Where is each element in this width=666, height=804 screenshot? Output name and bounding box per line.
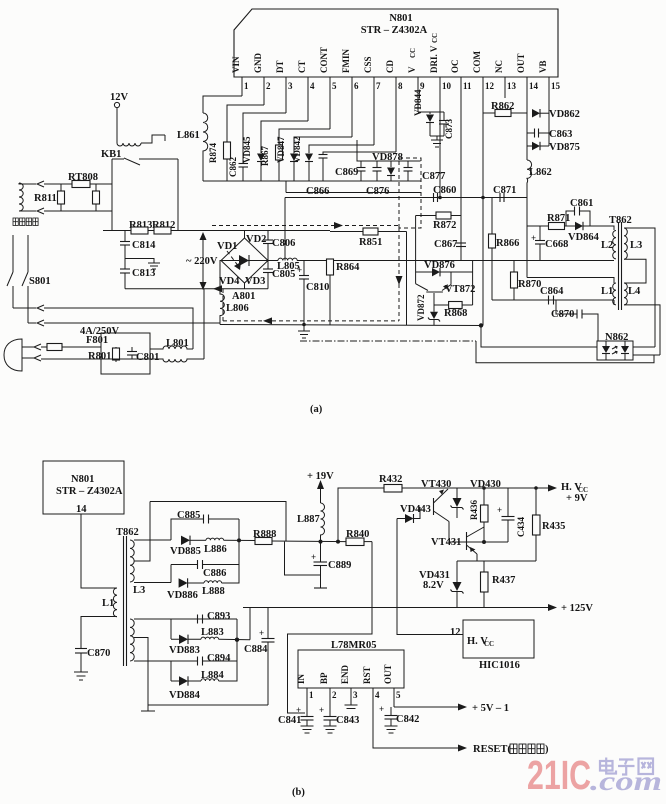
- svg-text:VD842: VD842: [292, 136, 302, 163]
- svg-text:C860: C860: [433, 185, 456, 196]
- svg-text:C801: C801: [136, 352, 159, 363]
- C889 side loop: [285, 542, 321, 575]
- ground (C870): [74, 672, 88, 680]
- snubber to L2 line: [527, 225, 549, 227]
- pin labels L78MR05: [296, 664, 401, 700]
- svg-text:END: END: [340, 664, 350, 684]
- svg-text:10: 10: [442, 81, 452, 91]
- svg-text:VD872: VD872: [416, 294, 426, 321]
- svg-text:5: 5: [396, 690, 401, 700]
- relay KB1 coil: [117, 143, 141, 146]
- svg-text:HIC1016: HIC1016: [479, 660, 520, 671]
- svg-text:+: +: [379, 704, 384, 714]
- ground (C814 branch): [125, 259, 154, 264]
- svg-text:L862: L862: [529, 167, 552, 178]
- svg-text:C886: C886: [203, 568, 226, 579]
- 网: [639, 759, 654, 775]
- svg-text:2: 2: [332, 690, 337, 700]
- svg-text:6: 6: [354, 81, 359, 91]
- svg-text:R432: R432: [379, 474, 402, 485]
- svg-text:14: 14: [529, 81, 539, 91]
- svg-text:KB1: KB1: [101, 149, 121, 160]
- dashed feedback top line: [212, 225, 399, 227]
- svg-text:RST: RST: [362, 666, 372, 684]
- svg-text:C876: C876: [366, 186, 389, 197]
- connector arrows AC lines: [13, 305, 44, 311]
- wire N862 inputs: [481, 326, 597, 348]
- winding (b lower): [130, 619, 134, 661]
- wire L862 down to L1 tap: [527, 196, 614, 283]
- svg-text:VD845: VD845: [242, 136, 252, 163]
- svg-text:DT: DT: [275, 60, 285, 73]
- svg-text:R868: R868: [444, 308, 467, 319]
- svg-text:R436: R436: [469, 500, 479, 520]
- wire AC to choke upper: [44, 308, 193, 349]
- svg-text:V: V: [407, 66, 417, 73]
- svg-text:R870: R870: [518, 279, 541, 290]
- svg-text:L1: L1: [601, 286, 613, 297]
- svg-text:T862: T862: [609, 215, 632, 226]
- svg-text:S801: S801: [29, 276, 51, 287]
- svg-text:12: 12: [485, 81, 495, 91]
- svg-text:L887: L887: [297, 514, 320, 525]
- svg-text:C893: C893: [207, 611, 230, 622]
- wire 12V to relay coil: [116, 108, 118, 143]
- svg-text:(b): (b): [292, 787, 305, 798]
- pin numbers 1-15: [244, 81, 561, 91]
- svg-text:VD4: VD4: [219, 276, 240, 287]
- svg-text:R867: R867: [260, 146, 270, 166]
- svg-text:L3: L3: [133, 585, 145, 596]
- pin leads 1-15 of N801: [242, 77, 549, 326]
- svg-text:C864: C864: [540, 286, 564, 297]
- wire pin4 bracket: [261, 121, 308, 153]
- svg-text:C866: C866: [306, 186, 329, 197]
- svg-text:C871: C871: [493, 185, 516, 196]
- svg-text:STR – Z4302A: STR – Z4302A: [56, 486, 123, 497]
- svg-text:3: 3: [353, 690, 358, 700]
- OUT +5V line: [394, 688, 458, 707]
- hybrid IC HIC1016: [463, 620, 534, 658]
- svg-text:OUT: OUT: [516, 53, 526, 73]
- 子: [619, 760, 634, 765]
- primary return line: [220, 325, 483, 326]
- svg-text:4: 4: [310, 81, 315, 91]
- svg-text:R864: R864: [336, 262, 360, 273]
- dashed box around VD878: [399, 158, 421, 228]
- dashed feedback left edge with arrow: [398, 228, 400, 321]
- snubber line bus3: [285, 197, 527, 199]
- wire R840 to regulator: [288, 542, 373, 713]
- svg-text:(a): (a): [310, 404, 323, 415]
- svg-text:8: 8: [398, 81, 403, 91]
- wire KB1 right leg: [177, 159, 179, 231]
- svg-text:+ 125V: + 125V: [561, 603, 593, 614]
- wire VD443 to HIC1016 pin 12: [397, 519, 463, 635]
- svg-text:15: 15: [551, 81, 561, 91]
- wire pin14 to L1: [81, 514, 117, 588]
- wire VD876 left leg: [415, 216, 417, 284]
- +125V rail: [243, 607, 548, 609]
- wire VT872 right leg: [472, 261, 474, 306]
- wire AC to bridge lower: [44, 322, 220, 324]
- wire pin3 bracket: [243, 113, 286, 163]
- svg-text:5: 5: [332, 81, 337, 91]
- wire degauss top: [44, 183, 112, 185]
- svg-text:DRI. V: DRI. V: [429, 45, 439, 73]
- svg-text:C814: C814: [132, 240, 156, 251]
- svg-text:13: 13: [507, 81, 517, 91]
- pin name labels (rotated): [231, 33, 548, 73]
- svg-text:R811: R811: [34, 193, 57, 204]
- svg-text:+: +: [531, 233, 536, 243]
- wire upper winding taps: [134, 502, 286, 583]
- wire pin6 bracket: [294, 137, 352, 153]
- svg-text:R874: R874: [208, 143, 218, 163]
- IC N801 box (b): [43, 461, 124, 514]
- RST output: [373, 688, 458, 748]
- svg-text:VD883: VD883: [169, 645, 200, 656]
- svg-text:C841: C841: [278, 715, 301, 726]
- svg-text:9: 9: [420, 81, 425, 91]
- svg-text:21IC: 21IC: [527, 752, 591, 798]
- wire pin1 to L861: [203, 96, 242, 113]
- svg-text:1: 1: [244, 81, 249, 91]
- svg-text:VD886: VD886: [167, 590, 198, 601]
- svg-text:C668: C668: [545, 239, 568, 250]
- svg-text:C863: C863: [549, 129, 572, 140]
- svg-text:R437: R437: [492, 575, 515, 586]
- svg-text:VD443: VD443: [400, 504, 431, 515]
- connector arrows to degauss coil: [19, 181, 44, 187]
- svg-text:N801: N801: [389, 13, 412, 24]
- svg-text:VD3: VD3: [245, 276, 265, 287]
- svg-text:.com: .com: [590, 766, 662, 796]
- ground (END pin): [345, 688, 358, 709]
- svg-text:+: +: [311, 552, 316, 562]
- svg-text:CC: CC: [409, 48, 417, 58]
- bus second line: [286, 181, 421, 193]
- svg-text:L1: L1: [102, 598, 114, 609]
- wire bridge top to AC1: [244, 231, 246, 239]
- svg-text:C870: C870: [87, 648, 110, 659]
- svg-text:RESET(: RESET(: [473, 744, 511, 755]
- svg-text:2: 2: [266, 81, 271, 91]
- mains plug: [4, 339, 22, 371]
- dashed feedback bottom line: [223, 289, 399, 321]
- svg-text:CC: CC: [484, 640, 494, 648]
- svg-text:GND: GND: [253, 53, 263, 74]
- relay KB1 contact: [112, 158, 124, 160]
- svg-text:~ 220V: ~ 220V: [186, 256, 218, 267]
- svg-text:A801: A801: [232, 291, 255, 302]
- svg-text:L886: L886: [204, 544, 227, 555]
- svg-text:C861: C861: [570, 198, 593, 209]
- svg-text:CONT: CONT: [319, 47, 329, 73]
- H.Vcc +9V output: [548, 485, 557, 492]
- svg-text:VD864: VD864: [568, 232, 600, 243]
- svg-text:VD875: VD875: [549, 142, 580, 153]
- svg-text:CSS: CSS: [363, 56, 373, 73]
- svg-text:VD878: VD878: [372, 152, 403, 163]
- svg-text:+: +: [497, 505, 502, 515]
- wire L3 taps: [624, 228, 655, 347]
- svg-text:VT430: VT430: [421, 479, 451, 490]
- svg-text:VD847: VD847: [276, 136, 286, 163]
- svg-text:L78MR05: L78MR05: [331, 640, 377, 651]
- svg-text:VD885: VD885: [170, 546, 201, 557]
- svg-text:12V: 12V: [110, 92, 129, 103]
- svg-text:R435: R435: [542, 521, 565, 532]
- svg-text:L861: L861: [177, 130, 200, 141]
- svg-text:VD862: VD862: [549, 109, 580, 120]
- svg-text:NC: NC: [494, 60, 504, 73]
- svg-text:N801: N801: [71, 474, 94, 485]
- svg-text:IN: IN: [296, 673, 306, 684]
- svg-text:3: 3: [288, 81, 293, 91]
- svg-text:CD: CD: [385, 60, 395, 73]
- capacitor (C876): [376, 161, 378, 168]
- svg-text:11: 11: [463, 81, 472, 91]
- svg-text:C869: C869: [335, 167, 358, 178]
- svg-text:F801: F801: [86, 335, 108, 346]
- svg-text:R866: R866: [496, 238, 519, 249]
- svg-text:R872: R872: [433, 220, 456, 231]
- wire R851 down leg: [406, 232, 408, 326]
- ground bus C866: [203, 180, 421, 182]
- svg-text:C806: C806: [272, 238, 295, 249]
- svg-text:OUT: OUT: [383, 664, 393, 684]
- svg-text:L883: L883: [201, 627, 224, 638]
- main +B rail: [268, 260, 278, 262]
- svg-text:VT431: VT431: [431, 537, 461, 548]
- wire pin7 bracket: [309, 145, 374, 153]
- wire lower winding taps: [134, 619, 237, 705]
- svg-text:VD844: VD844: [413, 89, 423, 116]
- wire degauss bottom: [44, 210, 112, 212]
- svg-text:C843: C843: [336, 715, 359, 726]
- svg-text:C813: C813: [132, 268, 155, 279]
- secondary lower line: [492, 299, 614, 301]
- svg-text:VB: VB: [538, 60, 548, 73]
- svg-text:+ 9V: + 9V: [566, 493, 588, 504]
- svg-text:7: 7: [376, 81, 381, 91]
- svg-text:T862: T862: [116, 527, 139, 538]
- svg-text:BP: BP: [319, 672, 329, 684]
- svg-text:R851: R851: [359, 237, 382, 248]
- svg-text:COM: COM: [472, 51, 482, 74]
- svg-text:C434: C434: [516, 517, 526, 537]
- svg-text:L2: L2: [601, 240, 613, 251]
- resistor (second vertical): [93, 191, 100, 204]
- capacitor (CSS): [319, 154, 328, 156]
- wire AC line upper (R813/R812 line): [103, 230, 330, 232]
- svg-text:C894: C894: [207, 653, 231, 664]
- ground (primary): [298, 325, 310, 339]
- svg-text:+: +: [296, 705, 301, 715]
- svg-text:L3: L3: [630, 240, 642, 251]
- wire AC line lower: [125, 288, 268, 290]
- EMI filter box: [101, 333, 150, 374]
- svg-text:L806: L806: [226, 303, 249, 314]
- svg-text:C842: C842: [396, 714, 419, 725]
- ground return line: [148, 704, 268, 706]
- wire pin8 bracket: [323, 152, 396, 155]
- wire pin2 bracket: [227, 105, 264, 142]
- svg-text:C884: C884: [244, 644, 268, 655]
- svg-text:L4: L4: [628, 286, 641, 297]
- svg-text:C867: C867: [434, 239, 457, 250]
- svg-text:VD1: VD1: [217, 241, 237, 252]
- svg-text:C862: C862: [228, 157, 238, 177]
- svg-text:8.2V: 8.2V: [423, 580, 444, 591]
- svg-text:R801: R801: [88, 351, 111, 362]
- snubber top line: [357, 140, 421, 161]
- wire bridge bottom to AC2: [244, 283, 246, 289]
- wire pin5 bracket: [279, 129, 330, 145]
- svg-text:CT: CT: [297, 60, 307, 73]
- svg-text:C873: C873: [444, 119, 454, 139]
- ground bar: [141, 705, 155, 711]
- svg-text:C810: C810: [306, 282, 329, 293]
- wire L4 bottom tap: [624, 305, 660, 355]
- svg-text:OC: OC: [450, 60, 460, 74]
- wire pin9 header: [418, 111, 444, 113]
- svg-text:CC: CC: [431, 33, 439, 43]
- svg-text:14: 14: [76, 504, 87, 515]
- svg-text:C889: C889: [328, 560, 351, 571]
- svg-text:VD884: VD884: [169, 690, 201, 701]
- emitter line: [457, 560, 536, 562]
- wire L1 to C870: [81, 617, 117, 649]
- svg-text:+: +: [297, 265, 302, 275]
- svg-text:C877: C877: [422, 171, 445, 182]
- 电: [600, 761, 613, 771]
- svg-text:12: 12: [450, 627, 461, 638]
- dash-dot feed line: [300, 340, 476, 342]
- svg-text:+: +: [259, 628, 264, 638]
- svg-text:FMIN: FMIN: [341, 49, 351, 73]
- wire N862 lower return: [476, 341, 654, 363]
- degaussing coil: [19, 183, 23, 211]
- svg-text:VIN: VIN: [231, 56, 241, 73]
- svg-text:1: 1: [309, 690, 314, 700]
- capacitor C867 leg on pin11: [460, 216, 462, 261]
- ground (pin9): [430, 136, 444, 147]
- svg-text:+ 5V – 1: + 5V – 1: [472, 703, 509, 714]
- wire R432 riser: [338, 488, 384, 542]
- svg-text:STR – Z4302A: STR – Z4302A: [361, 25, 428, 36]
- svg-text:+: +: [319, 705, 324, 715]
- op IC N801 STR-Z4302A box: [234, 9, 558, 77]
- wire KB1 left leg: [111, 159, 113, 231]
- svg-text:4: 4: [375, 690, 380, 700]
- svg-text:L888: L888: [202, 586, 225, 597]
- ground bar (C889): [314, 587, 327, 589]
- wire N862 outputs: [633, 346, 655, 348]
- bridge rectifier A801: [221, 238, 268, 283]
